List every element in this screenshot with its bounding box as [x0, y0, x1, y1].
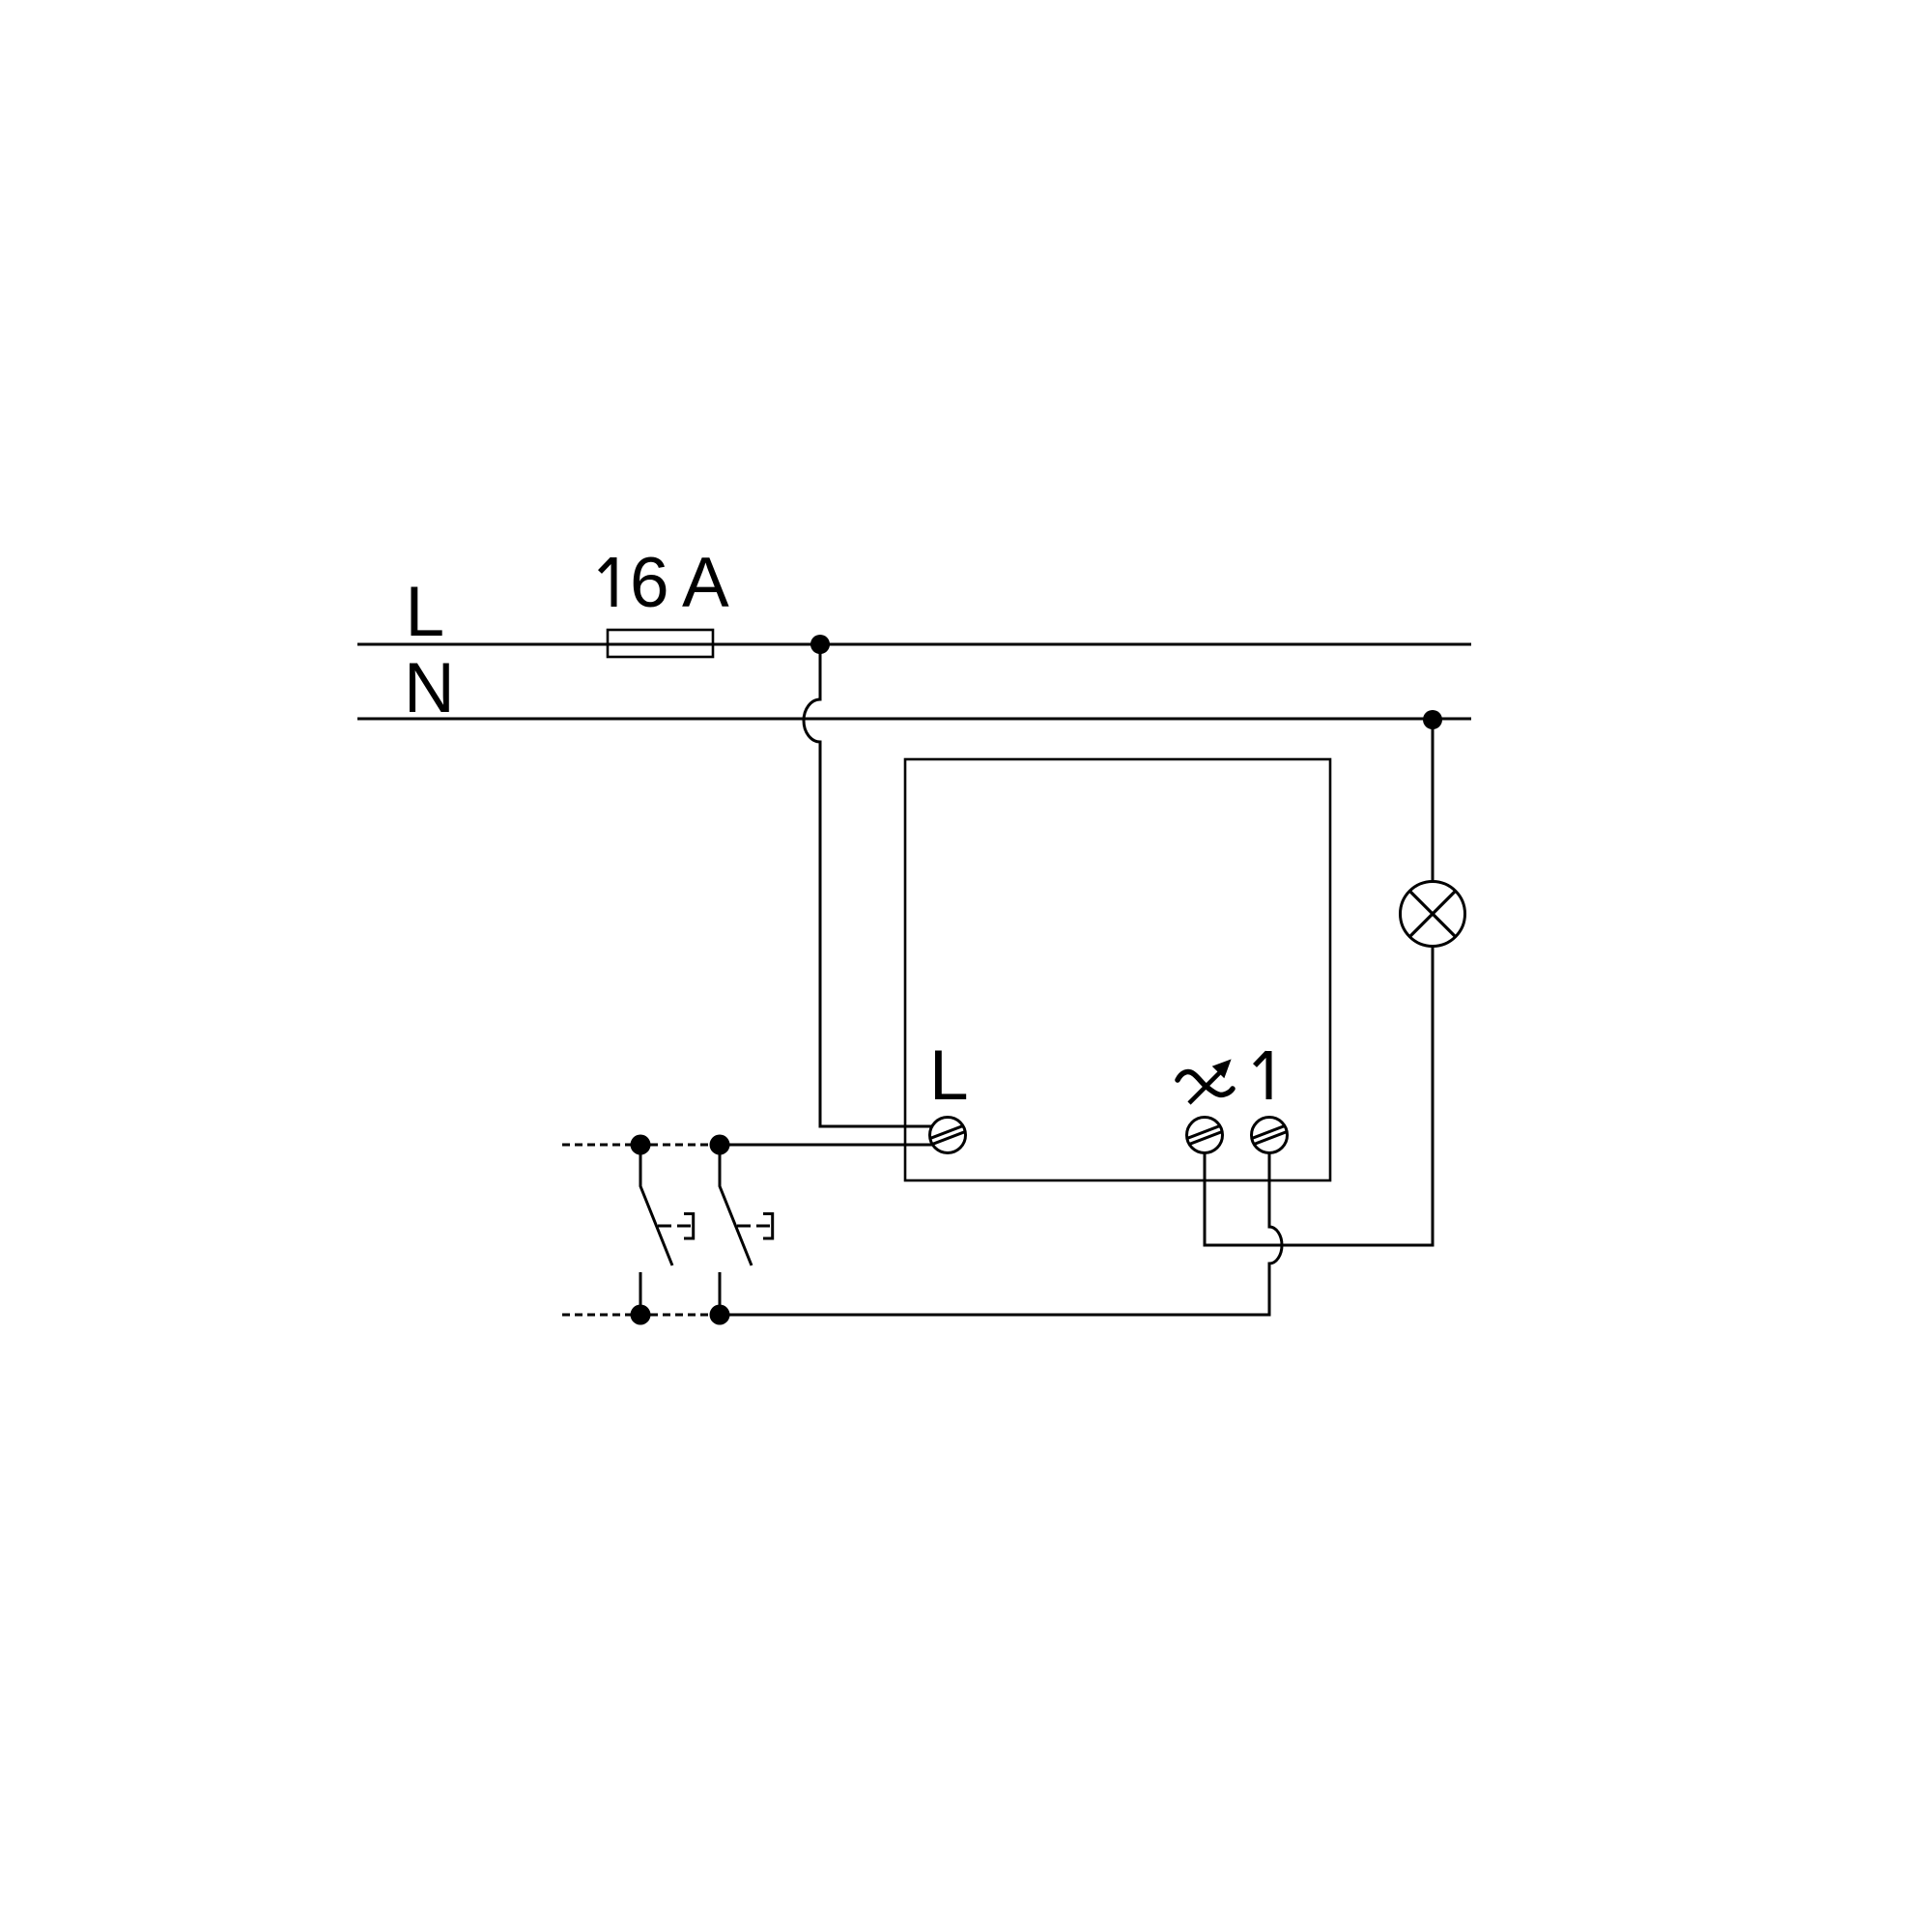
svg-text:L: L [929, 1037, 969, 1115]
svg-text:N: N [404, 649, 455, 727]
svg-text:6: 6 [630, 544, 669, 622]
svg-text:A: A [682, 544, 729, 622]
svg-text:L: L [406, 573, 445, 651]
